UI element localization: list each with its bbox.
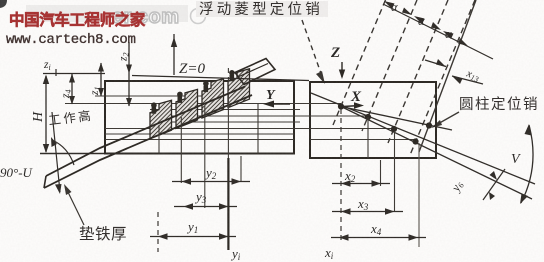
ramp bar top line: [46, 87, 245, 177]
top extension line left: [43, 73, 105, 75]
dim z2: [128, 42, 130, 106]
left block body: [105, 81, 294, 154]
workpiece unit 4 post: [230, 75, 235, 82]
workpiece unit 2 post: [178, 96, 183, 103]
workpiece unit 2 knob: [177, 92, 183, 98]
watermark band: [26, 5, 188, 22]
leader 垫铁厚: [66, 188, 84, 225]
x axis dashed vertical: [340, 109, 342, 240]
Y axis arrow: [266, 103, 290, 105]
dim y3: [174, 206, 237, 208]
90-U reference leaning line: [52, 112, 60, 192]
ramp left end cap: [44, 176, 46, 188]
node dot0 origin: [338, 103, 344, 109]
node dot2: [391, 126, 397, 132]
bottom datum line left: [40, 153, 294, 155]
projection verticals from steps: [159, 68, 228, 208]
ramp end flap: [235, 59, 275, 85]
steep dashed line L4: [410, 0, 475, 155]
Z axis arrow: [341, 62, 343, 77]
dim H: [45, 76, 47, 152]
workpiece unit 1 knob: [151, 102, 157, 108]
ramp surface inner line: [239, 64, 268, 77]
node dot4 cylinder pin: [426, 122, 432, 128]
label 浮动菱型定位销 halo: [196, 1, 328, 17]
dim z1: [100, 63, 102, 96]
steep dashed line L1: [333, 0, 386, 125]
dim y1 bottom: [150, 236, 236, 238]
horizontal projection lines: [65, 96, 417, 140]
right block body: [310, 82, 436, 158]
steep dashed line L2: [362, 0, 417, 131]
dim z4: [71, 74, 73, 105]
zi extension tick: [55, 69, 57, 76]
V rotation arc: [521, 125, 533, 203]
shallow line C: [341, 107, 532, 200]
shallow line B to dot4: [341, 107, 452, 131]
node dot3: [412, 138, 418, 144]
leader from 浮动菱型定位销 to right block corner: [302, 20, 323, 79]
verticals in right block: [368, 117, 395, 212]
leader 圆柱定位销 to pin dot4: [436, 112, 459, 125]
step block 1: [150, 100, 172, 139]
X axis arrow: [343, 106, 360, 107]
step block 4: [228, 69, 250, 108]
workpiece unit 1 post: [152, 107, 157, 114]
ramp bar bottom line: [44, 95, 252, 188]
scan corner artifact: [0, 0, 7, 8]
steep solid line L4b: [419, 0, 476, 152]
workpiece unit 3 knob: [203, 81, 209, 87]
dim y2: [172, 181, 250, 183]
step block 3: [202, 79, 224, 119]
dim x3: [332, 211, 403, 213]
vertical dim line x=174: [173, 34, 175, 75]
dim x2: [332, 183, 390, 185]
step block 2: [176, 89, 198, 128]
dim x4: [331, 237, 426, 239]
x13 dim band: [425, 60, 446, 67]
workpiece unit 4 knob: [229, 70, 235, 76]
workpiece unit 3 post: [204, 86, 209, 93]
extension vertical x=241: [240, 156, 242, 182]
shallow line A: [311, 93, 535, 184]
alpha dim band: [383, 4, 493, 59]
projection vertical x258: [257, 104, 259, 154]
y axis thick line: [227, 158, 229, 250]
watermark er.com: [112, 6, 206, 28]
angle arc 90-U: [52, 140, 74, 165]
dashed extension x=158: [157, 212, 159, 252]
node dot1: [365, 114, 371, 120]
y6 crossing line: [483, 169, 505, 200]
Z=0 datum line: [132, 76, 309, 81]
steep dashed line L3: [388, 0, 448, 143]
